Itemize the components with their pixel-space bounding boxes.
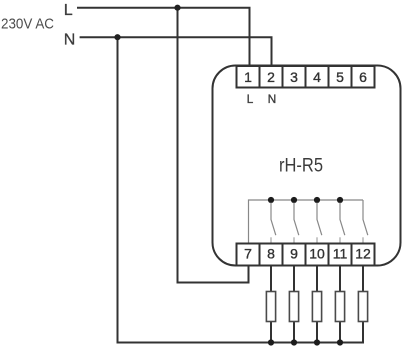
svg-text:8: 8 (267, 246, 275, 262)
terminal numbers 1-6 (244, 69, 367, 85)
load under terminal 8 (266, 292, 275, 322)
junction dot on L line (174, 5, 180, 11)
junction dot on N line (114, 34, 120, 40)
relay contact to terminal 11 (340, 203, 345, 244)
bus junction dots (268, 197, 274, 203)
load under terminal 11 (335, 292, 344, 322)
svg-text:230V AC: 230V AC (1, 15, 54, 32)
wire terminal 11 to load (339, 266, 341, 343)
svg-text:N: N (268, 92, 277, 106)
wire terminal 12 to load (362, 266, 364, 343)
relay contact to terminal 12 (363, 200, 368, 244)
bottom bus junction dots (268, 339, 274, 345)
wire L line to terminal 1 (77, 8, 250, 65)
device body rH-R5 (213, 66, 401, 266)
bottom terminal strip (7-12) (237, 244, 375, 266)
wire terminal 10 to load (316, 266, 318, 343)
relay contact to terminal 8 (271, 203, 276, 244)
svg-text:3: 3 (290, 69, 298, 85)
wire terminal 8 to load (270, 266, 272, 343)
svg-text:2: 2 (267, 69, 275, 85)
top terminal strip (1-6) (237, 66, 375, 88)
svg-text:L: L (247, 92, 254, 106)
svg-text:4: 4 (313, 69, 321, 85)
svg-text:5: 5 (336, 69, 344, 85)
terminal numbers 7-12 (244, 246, 371, 262)
svg-text:N: N (64, 31, 76, 48)
svg-text:9: 9 (290, 246, 298, 262)
svg-text:rH-R5: rH-R5 (279, 156, 323, 177)
svg-text:7: 7 (244, 246, 252, 262)
svg-text:6: 6 (359, 69, 367, 85)
wire N branch to bottom bus (118, 37, 364, 342)
load under terminal 12 (358, 292, 367, 322)
load under terminal 10 (312, 292, 321, 322)
relay contact to terminal 9 (294, 203, 299, 244)
wire terminal 9 to load (293, 266, 295, 343)
internal common bus from terminal 7 (249, 200, 364, 244)
load under terminal 9 (289, 292, 298, 322)
svg-text:12: 12 (355, 246, 371, 262)
svg-text:10: 10 (309, 246, 325, 262)
svg-text:11: 11 (333, 246, 348, 262)
svg-text:L: L (64, 2, 73, 19)
wire N line to terminal 2 (80, 37, 272, 65)
svg-text:1: 1 (244, 69, 252, 85)
relay contact to terminal 10 (317, 203, 322, 244)
wire L branch to terminal 7 (178, 8, 249, 283)
